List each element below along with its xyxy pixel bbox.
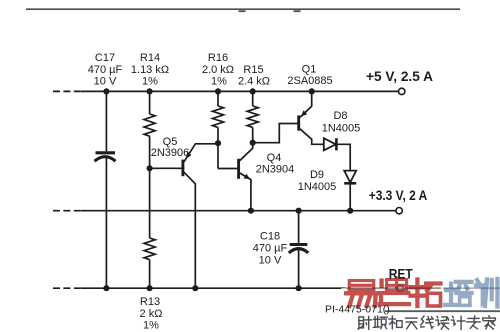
svg-text:+5 V, 2.5 A: +5 V, 2.5 A xyxy=(366,68,433,84)
svg-text:1N4005: 1N4005 xyxy=(298,181,337,193)
svg-text:+3.3 V, 2 A: +3.3 V, 2 A xyxy=(369,188,428,203)
svg-text:C18: C18 xyxy=(260,231,280,243)
svg-text:10 V: 10 V xyxy=(94,76,117,88)
svg-text:470 µF: 470 µF xyxy=(253,243,288,255)
svg-text:1%: 1% xyxy=(211,76,227,88)
svg-text:1%: 1% xyxy=(142,76,158,88)
svg-text:Q1: Q1 xyxy=(302,64,317,76)
svg-text:C17: C17 xyxy=(95,52,115,64)
svg-text:10 V: 10 V xyxy=(259,255,282,267)
svg-text:RET: RET xyxy=(389,266,413,282)
svg-text:R16: R16 xyxy=(208,52,228,64)
svg-text:Q4: Q4 xyxy=(267,152,282,164)
svg-text:2.4 kΩ: 2.4 kΩ xyxy=(238,76,270,88)
svg-text:1%: 1% xyxy=(143,320,159,332)
svg-text:2 kΩ: 2 kΩ xyxy=(140,308,163,320)
svg-text:470 µF: 470 µF xyxy=(88,64,123,76)
svg-text:D8: D8 xyxy=(333,110,347,122)
svg-text:2SA0885: 2SA0885 xyxy=(287,75,332,87)
svg-text:2N3906: 2N3906 xyxy=(151,147,190,159)
svg-text:D9: D9 xyxy=(310,169,324,181)
svg-text:R13: R13 xyxy=(140,296,160,308)
svg-text:PI-4475-071(): PI-4475-071() xyxy=(325,304,390,316)
svg-text:1N4005: 1N4005 xyxy=(322,123,361,135)
svg-text:2.0 kΩ: 2.0 kΩ xyxy=(202,64,234,76)
svg-text:2N3904: 2N3904 xyxy=(256,164,295,176)
svg-text:1.13 kΩ: 1.13 kΩ xyxy=(131,64,169,76)
svg-text:R14: R14 xyxy=(140,52,160,64)
svg-text:R15: R15 xyxy=(243,64,263,76)
